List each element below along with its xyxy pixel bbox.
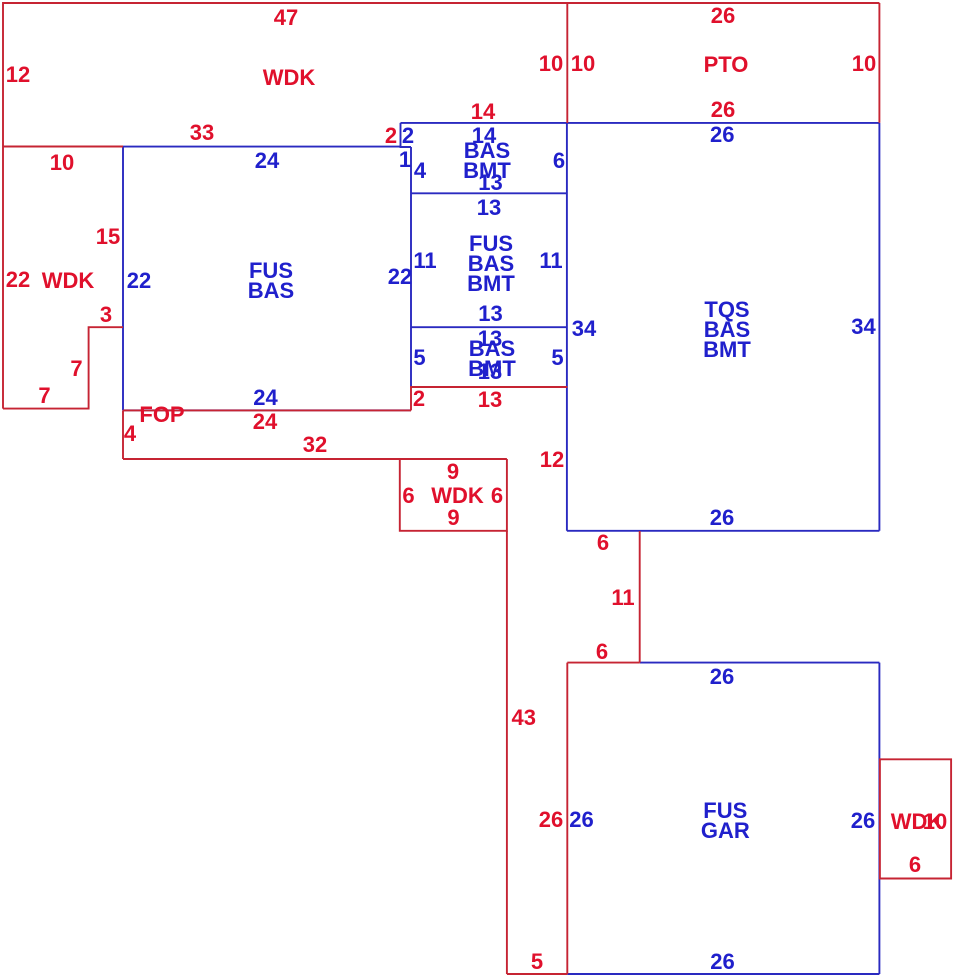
dim 11 connector xyxy=(611,588,634,608)
dim 22 blue right xyxy=(388,267,412,287)
room WDK left xyxy=(42,271,95,291)
dim 11 right xyxy=(539,251,562,271)
FUS BAS left edge xyxy=(122,147,124,411)
room PTO xyxy=(704,55,749,75)
dim 26 red garage left xyxy=(539,810,563,830)
room BAS BMT top xyxy=(463,141,511,181)
dim 14 blue xyxy=(472,126,496,146)
left WDK bottom step xyxy=(3,327,123,408)
FUS BAS bottom edge xyxy=(123,409,411,411)
room WDK top xyxy=(263,68,316,88)
FUS BAS top edge xyxy=(123,146,401,148)
dim 3 xyxy=(100,305,112,325)
dim 6 bas bmt right xyxy=(553,151,565,171)
dim 34 left xyxy=(572,319,596,339)
dim 12 xyxy=(6,65,30,85)
FOP top edge xyxy=(123,409,411,411)
dim 22 blue left xyxy=(127,271,151,291)
dim 26 gar right xyxy=(851,811,875,831)
dim 26 tqs bottom xyxy=(710,508,734,528)
long red vertical xyxy=(506,531,508,974)
room TQS BAS BMT xyxy=(703,300,751,360)
dim 2 fop right xyxy=(413,389,425,409)
dim 10 pto right xyxy=(852,54,876,74)
right WDK box xyxy=(880,759,951,878)
dim 1 xyxy=(399,150,411,170)
dim 5 lower left xyxy=(413,348,425,368)
BAS BMT / FUS BAS BMT shared left edge xyxy=(410,147,412,387)
dim 26 pto bottom xyxy=(711,100,735,120)
PTO right edge xyxy=(878,3,880,123)
dim 6 wdk small left xyxy=(402,486,414,506)
BAS BMT left upper edge xyxy=(401,123,412,147)
dim 2 red xyxy=(385,126,397,146)
FUS GAR right edge xyxy=(878,663,880,974)
dim 47 xyxy=(274,8,298,28)
dim 13 lower top xyxy=(478,329,502,349)
dim 26 gar top xyxy=(710,667,734,687)
dim 24 blue bottom xyxy=(253,388,277,408)
room WDK right xyxy=(891,812,944,832)
dim 13 bas bmt bottom xyxy=(478,173,502,193)
dim 26 tqs top xyxy=(710,125,734,145)
dim 24 red xyxy=(253,412,277,432)
dim 12 xyxy=(540,450,564,470)
BAS BMT / TQS top edge xyxy=(401,122,880,124)
dim 5 bottom xyxy=(531,952,543,972)
TQS bottom edge xyxy=(567,530,880,532)
TQS left edge xyxy=(566,123,568,531)
WDK bottom edge xyxy=(3,146,123,148)
room WDK small xyxy=(431,486,484,506)
dim 2 blue xyxy=(402,126,414,146)
dim 4 xyxy=(414,161,426,181)
dim 43 xyxy=(512,708,536,728)
small WDK box xyxy=(400,459,507,531)
lower BAS BMT bottom edge xyxy=(411,386,567,388)
dim 13 fusbasbmt bottom xyxy=(478,304,502,324)
dim 14 red xyxy=(471,102,495,122)
TQS right edge xyxy=(878,123,880,531)
dim 13 red xyxy=(478,390,502,410)
room BAS BMT lower xyxy=(468,339,516,379)
dim 7 step xyxy=(70,359,82,379)
connector bottom edge xyxy=(567,662,639,664)
FUS GAR bottom edge xyxy=(567,973,879,975)
dim 26 gar left xyxy=(569,810,593,830)
dim 33 xyxy=(190,123,214,143)
dim 15 xyxy=(96,227,120,247)
WDK top outline xyxy=(3,3,879,409)
FUS GAR left edge (red) xyxy=(566,663,568,974)
dim 6 connector top xyxy=(597,533,609,553)
dim 9 wdk small top xyxy=(447,462,459,482)
dim 10 wdk right box xyxy=(923,812,947,832)
FOP left edge xyxy=(122,410,124,459)
dim 5 lower right xyxy=(551,348,563,368)
dim 9 wdk small bottom xyxy=(447,508,459,528)
FUS BAS BMT bottom edge xyxy=(411,326,567,328)
dim 4 fop xyxy=(124,424,136,444)
dim 6 connector bottom xyxy=(596,642,608,662)
bottom red segment xyxy=(507,973,567,975)
BAS BMT bottom edge xyxy=(411,192,567,194)
room FUS BAS BMT xyxy=(467,234,515,294)
dim 10 left wdk top xyxy=(50,153,74,173)
room FOP xyxy=(139,405,184,425)
red line under lower BAS BMT xyxy=(411,387,567,410)
dim 26 pto top xyxy=(711,6,735,26)
dim 13 lower bottom xyxy=(478,362,502,382)
dim 6 wdk right box xyxy=(909,855,921,875)
dim 13 fusbasbmt top xyxy=(477,198,501,218)
dim 6 wdk small right xyxy=(491,486,503,506)
dim 7 bottom xyxy=(38,386,50,406)
room FUS BAS xyxy=(248,261,294,301)
FUS GAR top edge xyxy=(640,662,880,664)
dim 10 pto left xyxy=(571,54,595,74)
dim 34 right xyxy=(851,317,875,337)
WDK / PTO divider xyxy=(566,3,568,123)
dim 11 left xyxy=(413,251,436,271)
dim 10 wdk right xyxy=(539,54,563,74)
FOP bottom / small WDK top edge xyxy=(123,458,507,460)
dim 32 xyxy=(303,435,327,455)
connector right edge xyxy=(639,531,641,663)
room FUS GAR xyxy=(701,801,750,841)
dim 22 left xyxy=(6,270,30,290)
dim 24 blue top xyxy=(255,151,279,171)
dim 26 gar bottom xyxy=(710,952,734,972)
